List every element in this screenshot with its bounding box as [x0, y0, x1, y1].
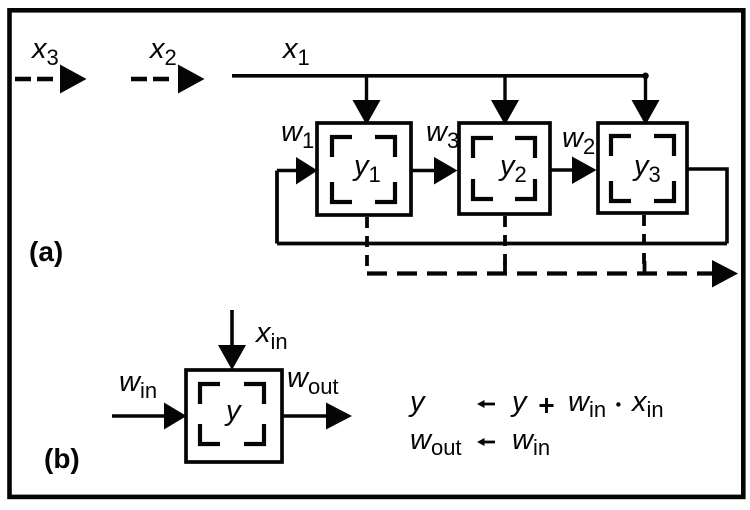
processing element box y2	[459, 123, 550, 214]
arrowhead into y2 top	[491, 100, 519, 125]
svg-text:x1: x1	[281, 33, 310, 70]
wire y3 output right	[687, 169, 727, 244]
arrowhead w into y1	[296, 157, 318, 185]
wire y1 to y2	[411, 169, 436, 172]
junction dot x1 bus end	[642, 73, 649, 80]
svg-text:(a): (a)	[29, 236, 63, 267]
arrowhead into y2 left	[434, 157, 458, 185]
wire dashed below y2	[503, 216, 507, 265]
wire dashed output bus	[367, 271, 712, 275]
arrowhead w_out	[326, 403, 352, 430]
junction dashed y3 corner to bus	[643, 261, 647, 272]
wire feedback bottom	[277, 242, 727, 246]
svg-text:y3: y3	[632, 150, 661, 187]
plus sign	[540, 398, 554, 413]
wire w_out	[282, 414, 328, 418]
wire dashed input x3	[15, 77, 57, 82]
assignment arrow line 2	[480, 441, 495, 444]
svg-text:y2: y2	[498, 150, 527, 187]
processing element box y3	[598, 123, 687, 213]
wire w_in	[112, 414, 166, 418]
svg-text:y1: y1	[352, 150, 381, 187]
arrowhead into y3 left	[572, 157, 597, 185]
processing element box b	[186, 370, 282, 462]
wire dashed input x2	[131, 77, 173, 82]
register brackets y1	[332, 137, 395, 202]
register brackets y2	[473, 138, 535, 199]
assignment arrow line 1	[480, 403, 495, 406]
arrowhead w_in	[164, 403, 187, 430]
wire dashed below y1	[365, 217, 369, 274]
svg-text:(b): (b)	[44, 443, 80, 474]
wire dashed below y3	[642, 215, 646, 264]
arrowhead into y1 top	[353, 100, 381, 125]
svg-text:xin: xin	[254, 317, 288, 354]
wire feedback left up	[275, 171, 279, 244]
svg-text:w2: w2	[562, 122, 595, 159]
wire x_in down	[230, 310, 234, 348]
svg-text:w3: w3	[426, 116, 459, 153]
arrowhead dashed bus	[712, 260, 738, 288]
register brackets y3	[611, 136, 674, 201]
wire w into y1	[277, 169, 299, 172]
svg-text:x3: x3	[30, 33, 59, 70]
processing element box y1	[317, 123, 411, 215]
register brackets b	[200, 384, 264, 444]
arrowhead x3	[60, 65, 87, 94]
svg-text:yywinxin: yywinxin	[408, 386, 664, 422]
wire branch down to y2	[503, 76, 506, 103]
svg-text:wout: wout	[287, 362, 339, 399]
wire branch down to y3	[644, 76, 647, 103]
svg-text:x2: x2	[148, 33, 177, 70]
junction dashed y2 to bus	[503, 262, 507, 272]
arrowhead into y3 top	[632, 100, 660, 125]
wire x1 bus horizontal	[232, 74, 647, 78]
arrowhead x2	[178, 65, 205, 94]
arrowhead x_in	[218, 345, 246, 370]
wire y2 to y3	[550, 168, 574, 171]
svg-text:w1: w1	[281, 116, 314, 153]
svg-text:win: win	[119, 366, 157, 403]
multiplication dot	[616, 402, 620, 406]
wire branch down to y1	[365, 76, 368, 103]
svg-text:y: y	[224, 395, 242, 427]
